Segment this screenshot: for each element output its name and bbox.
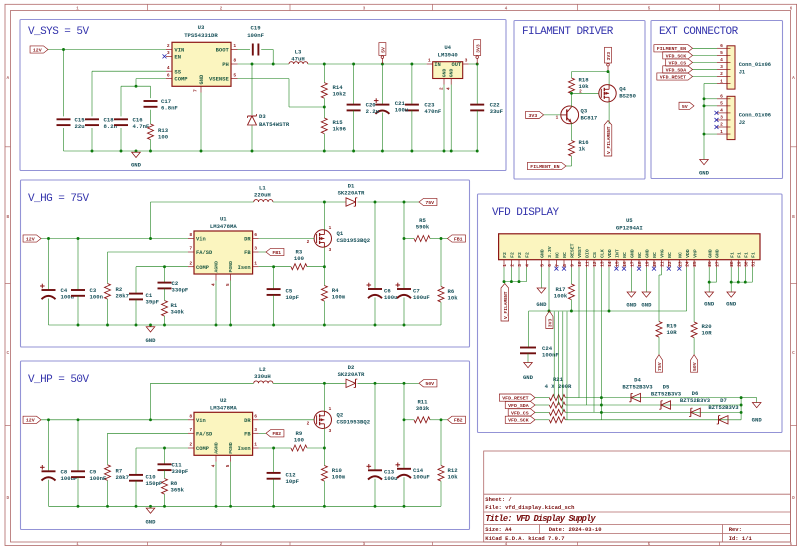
svg-text:12V: 12V — [33, 47, 42, 53]
svg-text:3: 3 — [329, 248, 332, 253]
svg-text:GND: GND — [449, 68, 455, 77]
svg-text:39pF: 39pF — [146, 299, 160, 306]
svg-text:7: 7 — [554, 264, 560, 267]
svg-text:8: 8 — [189, 232, 192, 238]
svg-text:COMP: COMP — [174, 76, 188, 83]
svg-text:LM3478MA: LM3478MA — [210, 223, 237, 230]
svg-text:47uH: 47uH — [291, 55, 304, 62]
svg-text:BC817: BC817 — [581, 115, 598, 122]
svg-text:File: vfd_display.kicad_sch: File: vfd_display.kicad_sch — [485, 504, 574, 511]
svg-text:10pF: 10pF — [286, 478, 300, 485]
svg-text:GND: GND — [626, 302, 637, 309]
svg-text:V_HP = 50V: V_HP = 50V — [28, 374, 89, 386]
svg-text:9: 9 — [569, 264, 575, 267]
svg-text:4: 4 — [211, 464, 216, 467]
svg-text:8: 8 — [562, 264, 568, 267]
svg-text:2: 2 — [307, 421, 310, 426]
svg-text:3: 3 — [254, 246, 257, 252]
svg-text:KiCad E.D.A. kicad 7.0.7: KiCad E.D.A. kicad 7.0.7 — [485, 535, 564, 542]
svg-text:2: 2 — [509, 264, 515, 267]
svg-text:Size: A4: Size: A4 — [485, 526, 512, 533]
svg-text:6: 6 — [167, 72, 170, 78]
svg-text:DR: DR — [244, 418, 251, 424]
svg-text:Date: 2024-03-10: Date: 2024-03-10 — [549, 526, 602, 533]
svg-text:5: 5 — [720, 101, 723, 107]
svg-text:VFD_SDA: VFD_SDA — [666, 67, 687, 73]
svg-text:5V: 5V — [381, 47, 387, 53]
svg-text:Vin: Vin — [196, 237, 206, 243]
svg-text:F1: F1 — [729, 252, 735, 258]
svg-text:25: 25 — [692, 261, 698, 267]
svg-text:100: 100 — [158, 133, 169, 140]
svg-text:VDD: VDD — [607, 249, 613, 258]
svg-text:VRST: VRST — [577, 246, 583, 258]
svg-text:6: 6 — [720, 94, 723, 100]
svg-text:Sheet: /: Sheet: / — [485, 496, 512, 503]
svg-text:1: 1 — [233, 43, 236, 49]
svg-text:COMP: COMP — [196, 265, 209, 271]
svg-text:VFD_RESET: VFD_RESET — [502, 396, 528, 402]
svg-text:GND: GND — [752, 417, 763, 424]
svg-text:330uH: 330uH — [254, 373, 271, 380]
svg-text:NC: NC — [622, 252, 628, 258]
svg-text:DIO: DIO — [585, 249, 591, 258]
svg-text:20: 20 — [652, 261, 658, 267]
svg-text:V_SYS = 5V: V_SYS = 5V — [28, 26, 89, 38]
svg-text:30: 30 — [743, 261, 749, 267]
svg-text:GND: GND — [715, 249, 721, 258]
svg-text:12: 12 — [592, 261, 598, 267]
svg-text:1: 1 — [720, 78, 723, 84]
svg-text:100uF: 100uF — [61, 475, 78, 482]
svg-text:VFD DISPLAY: VFD DISPLAY — [492, 207, 560, 219]
svg-text:5: 5 — [720, 50, 723, 56]
svg-text:150pF: 150pF — [146, 480, 163, 487]
svg-text:4: 4 — [211, 283, 216, 286]
svg-text:Conn_01x06: Conn_01x06 — [739, 112, 771, 118]
svg-text:FB1: FB1 — [272, 250, 281, 256]
svg-text:VHG: VHG — [660, 249, 666, 258]
svg-text:7: 7 — [189, 246, 192, 252]
svg-text:PH: PH — [222, 61, 229, 68]
svg-text:100m: 100m — [332, 474, 346, 481]
svg-text:D3: D3 — [259, 113, 266, 120]
svg-text:A: A — [6, 76, 9, 81]
svg-text:VFD_SDA: VFD_SDA — [508, 403, 529, 409]
svg-text:DR: DR — [244, 237, 251, 243]
svg-text:GND: GND — [699, 170, 710, 177]
svg-text:10k: 10k — [448, 295, 459, 302]
svg-text:10R: 10R — [702, 330, 713, 337]
svg-text:FB: FB — [244, 431, 251, 437]
svg-text:12V: 12V — [26, 236, 35, 242]
svg-text:GND: GND — [707, 249, 713, 258]
svg-text:75V: 75V — [425, 200, 434, 206]
svg-text:B: B — [6, 215, 9, 220]
svg-text:D: D — [6, 496, 9, 501]
svg-text:10k2: 10k2 — [333, 91, 347, 98]
svg-text:100uF: 100uF — [413, 474, 430, 481]
svg-text:1k96: 1k96 — [333, 126, 347, 133]
svg-text:2: 2 — [720, 71, 723, 77]
svg-text:4: 4 — [720, 108, 723, 114]
svg-text:VFD_SCK: VFD_SCK — [666, 53, 687, 59]
svg-text:Q4: Q4 — [619, 86, 626, 93]
svg-text:100: 100 — [294, 255, 305, 262]
svg-text:2: 2 — [579, 89, 582, 94]
svg-text:D7: D7 — [720, 397, 727, 404]
svg-text:1: 1 — [720, 129, 723, 135]
svg-text:NC: NC — [667, 252, 673, 258]
svg-text:F1: F1 — [751, 252, 757, 258]
svg-text:1k: 1k — [579, 146, 586, 153]
svg-text:8.2n: 8.2n — [104, 123, 118, 130]
svg-text:2: 2 — [189, 260, 192, 266]
svg-text:3V3: 3V3 — [528, 113, 537, 119]
svg-text:29: 29 — [736, 261, 742, 267]
svg-text:33uF: 33uF — [490, 108, 504, 115]
svg-text:FB2: FB2 — [454, 418, 463, 424]
svg-text:FB2: FB2 — [272, 431, 281, 437]
svg-text:2: 2 — [439, 87, 444, 90]
svg-text:470nF: 470nF — [424, 108, 441, 115]
svg-text:L1: L1 — [259, 185, 266, 192]
svg-text:C: C — [792, 351, 795, 356]
svg-text:U4: U4 — [444, 44, 451, 51]
svg-text:F2: F2 — [502, 252, 508, 258]
svg-text:D1: D1 — [348, 183, 355, 190]
svg-text:GND: GND — [523, 374, 534, 381]
svg-text:15: 15 — [614, 261, 620, 267]
svg-text:C: C — [6, 351, 9, 356]
svg-text:CLK: CLK — [600, 249, 606, 258]
svg-text:EN: EN — [174, 54, 181, 61]
svg-text:100u: 100u — [384, 294, 397, 301]
svg-text:NC: NC — [678, 252, 684, 258]
svg-text:VDD: VDD — [685, 249, 691, 258]
svg-text:3: 3 — [720, 115, 723, 121]
svg-text:J2: J2 — [739, 120, 745, 126]
svg-text:CS: CS — [592, 252, 598, 258]
svg-text:Isen: Isen — [238, 446, 251, 452]
svg-text:U1: U1 — [220, 216, 227, 223]
svg-text:Q2: Q2 — [337, 411, 344, 418]
svg-text:FB1: FB1 — [454, 236, 463, 242]
svg-text:10R: 10R — [667, 329, 678, 336]
svg-text:Title: VFD Display Supply: Title: VFD Display Supply — [485, 514, 596, 524]
svg-text:16: 16 — [622, 261, 628, 267]
svg-text:5: 5 — [539, 264, 545, 267]
svg-text:GND: GND — [641, 302, 652, 309]
svg-text:J1: J1 — [739, 69, 745, 75]
svg-text:340k: 340k — [171, 309, 185, 316]
svg-text:D: D — [792, 496, 795, 501]
svg-text:VSENSE: VSENSE — [209, 76, 230, 83]
svg-text:100m: 100m — [332, 294, 346, 301]
svg-text:26: 26 — [707, 261, 713, 267]
svg-text:Isen: Isen — [238, 265, 251, 271]
svg-text:2: 2 — [307, 240, 310, 245]
svg-text:100n: 100n — [90, 294, 104, 301]
svg-text:1: 1 — [254, 260, 257, 266]
svg-text:7: 7 — [189, 427, 192, 433]
svg-text:100k: 100k — [554, 293, 568, 300]
svg-text:NC: NC — [637, 252, 643, 258]
svg-text:RESET: RESET — [570, 243, 576, 258]
svg-text:VFD_SCK: VFD_SCK — [508, 418, 529, 424]
svg-text:V_HG = 75V: V_HG = 75V — [28, 193, 89, 205]
svg-text:50V: 50V — [425, 381, 434, 387]
svg-text:A: A — [792, 76, 795, 81]
svg-text:6: 6 — [254, 232, 257, 238]
svg-text:3V3: 3V3 — [548, 319, 554, 328]
svg-text:12V: 12V — [26, 418, 35, 424]
svg-text:CSD1953BQ2: CSD1953BQ2 — [337, 237, 371, 244]
svg-text:22u: 22u — [75, 123, 85, 130]
svg-text:50V: 50V — [692, 362, 698, 371]
svg-text:27: 27 — [715, 261, 721, 267]
svg-text:2: 2 — [720, 122, 723, 128]
svg-text:23: 23 — [677, 261, 683, 267]
svg-text:NC: NC — [652, 252, 658, 258]
svg-text:FA/SD: FA/SD — [196, 250, 213, 256]
svg-text:VFD_CS: VFD_CS — [511, 410, 529, 416]
svg-text:24: 24 — [685, 261, 691, 267]
svg-text:U5: U5 — [626, 217, 633, 224]
svg-text:GND: GND — [540, 249, 546, 258]
svg-text:10: 10 — [577, 261, 583, 267]
svg-text:330pF: 330pF — [172, 287, 189, 294]
svg-text:CSD1953BQ2: CSD1953BQ2 — [337, 418, 371, 425]
svg-text:1: 1 — [556, 116, 559, 121]
svg-text:D6: D6 — [692, 390, 699, 397]
svg-text:LM3940: LM3940 — [438, 52, 459, 59]
svg-text:6: 6 — [254, 414, 257, 420]
svg-text:19: 19 — [644, 261, 650, 267]
svg-text:COMP: COMP — [196, 446, 209, 452]
svg-text:4: 4 — [525, 264, 531, 267]
svg-text:4: 4 — [720, 57, 723, 63]
svg-text:L2: L2 — [259, 366, 266, 373]
svg-text:5: 5 — [233, 72, 236, 78]
svg-text:GP1294AI: GP1294AI — [616, 224, 643, 231]
svg-text:1: 1 — [254, 442, 257, 448]
svg-text:FILMENT_EN: FILMENT_EN — [657, 46, 686, 52]
svg-text:11: 11 — [585, 261, 591, 267]
svg-text:365k: 365k — [171, 487, 185, 494]
svg-text:2.2u: 2.2u — [366, 108, 379, 115]
svg-text:GND: GND — [536, 301, 547, 308]
svg-text:8: 8 — [233, 58, 236, 64]
svg-text:2: 2 — [189, 442, 192, 448]
svg-text:BZT52B3V3: BZT52B3V3 — [680, 397, 711, 404]
svg-text:6: 6 — [547, 264, 553, 267]
svg-text:5V: 5V — [682, 104, 688, 110]
svg-text:1: 1 — [329, 407, 332, 412]
svg-text:100u: 100u — [395, 107, 408, 114]
svg-text:1: 1 — [428, 58, 431, 64]
svg-text:75V: 75V — [657, 362, 663, 371]
svg-text:31: 31 — [750, 261, 756, 267]
svg-text:GND: GND — [704, 301, 715, 308]
svg-text:F1: F1 — [744, 252, 750, 258]
svg-text:BAT54WSTR: BAT54WSTR — [259, 121, 290, 128]
svg-text:6.8nF: 6.8nF — [161, 104, 178, 111]
svg-text:Rev:: Rev: — [729, 526, 742, 533]
svg-text:Vin: Vin — [196, 418, 206, 424]
svg-text:14: 14 — [607, 261, 613, 267]
svg-text:D5: D5 — [663, 384, 670, 391]
svg-text:VHP: VHP — [692, 249, 698, 258]
svg-text:LM3478MA: LM3478MA — [210, 404, 237, 411]
svg-text:U2: U2 — [220, 397, 227, 404]
svg-text:F2: F2 — [525, 252, 531, 258]
svg-text:590k: 590k — [416, 224, 430, 231]
svg-text:3: 3 — [167, 50, 170, 56]
svg-text:VFD_RESET: VFD_RESET — [660, 74, 686, 80]
svg-text:SS: SS — [174, 68, 181, 75]
svg-text:4: 4 — [447, 87, 452, 90]
svg-text:SK220ATR: SK220ATR — [338, 371, 365, 378]
svg-text:AGND: AGND — [214, 261, 220, 273]
svg-text:28: 28 — [729, 261, 735, 267]
svg-text:Conn_01x06: Conn_01x06 — [739, 62, 771, 68]
svg-text:5: 5 — [226, 464, 231, 467]
svg-text:330pF: 330pF — [172, 468, 189, 475]
svg-text:V_FILAMENT: V_FILAMENT — [503, 291, 509, 319]
svg-text:GND: GND — [726, 301, 737, 308]
svg-text:GND: GND — [145, 337, 156, 344]
svg-text:U3: U3 — [198, 24, 205, 31]
svg-text:GND: GND — [199, 74, 205, 84]
svg-text:1: 1 — [502, 264, 508, 267]
svg-text:INT: INT — [615, 249, 621, 258]
svg-text:BS250: BS250 — [619, 93, 636, 100]
svg-text:4.7nF: 4.7nF — [133, 123, 150, 130]
svg-text:10k: 10k — [448, 474, 459, 481]
svg-text:BZT52B3V3: BZT52B3V3 — [622, 383, 653, 390]
svg-text:IN: IN — [434, 62, 440, 68]
svg-text:8: 8 — [189, 414, 192, 420]
svg-text:28k7: 28k7 — [116, 293, 129, 300]
svg-text:1: 1 — [329, 226, 332, 231]
svg-text:D2: D2 — [348, 364, 355, 371]
svg-text:100uF: 100uF — [413, 294, 430, 301]
svg-text:PGND: PGND — [228, 261, 234, 273]
svg-text:V_FILAMENT: V_FILAMENT — [606, 126, 612, 154]
svg-text:17: 17 — [629, 261, 635, 267]
svg-text:BZT52B3V3: BZT52B3V3 — [708, 404, 739, 411]
svg-text:GND: GND — [630, 249, 636, 258]
svg-text:3: 3 — [329, 429, 332, 434]
svg-text:4: 4 — [167, 65, 170, 71]
svg-text:100: 100 — [294, 436, 305, 443]
svg-text:3V3: 3V3 — [475, 44, 481, 53]
svg-text:3: 3 — [254, 427, 257, 433]
svg-text:Q1: Q1 — [337, 230, 344, 237]
svg-text:220uH: 220uH — [254, 192, 271, 199]
svg-text:GND: GND — [645, 249, 651, 258]
svg-text:NC: NC — [555, 252, 561, 258]
svg-text:3: 3 — [465, 58, 468, 64]
svg-text:B: B — [792, 215, 795, 220]
svg-text:OUT: OUT — [451, 62, 461, 68]
svg-text:100u: 100u — [61, 294, 74, 301]
svg-text:Id: 1/1: Id: 1/1 — [729, 535, 753, 542]
svg-text:28k7: 28k7 — [116, 474, 129, 481]
svg-text:AGND: AGND — [214, 442, 220, 454]
svg-text:FB: FB — [244, 250, 251, 256]
svg-text:7: 7 — [193, 89, 199, 92]
svg-text:13: 13 — [599, 261, 605, 267]
svg-text:VFD_CS: VFD_CS — [669, 60, 687, 66]
svg-text:383k: 383k — [416, 405, 430, 412]
svg-text:FILAMENT DRIVER: FILAMENT DRIVER — [522, 26, 614, 38]
svg-text:SK220ATR: SK220ATR — [338, 190, 365, 197]
svg-text:100u: 100u — [384, 475, 397, 482]
svg-text:100nF: 100nF — [90, 475, 107, 482]
svg-text:EXT CONNECTOR: EXT CONNECTOR — [659, 26, 739, 38]
svg-text:GND: GND — [442, 68, 448, 77]
svg-text:C19: C19 — [251, 25, 262, 32]
svg-text:21: 21 — [659, 261, 665, 267]
svg-text:F1: F1 — [737, 252, 743, 258]
svg-text:6: 6 — [720, 43, 723, 49]
svg-text:100nF: 100nF — [542, 352, 559, 359]
svg-text:22: 22 — [667, 261, 673, 267]
svg-text:10pF: 10pF — [286, 294, 300, 301]
svg-text:FILMENT_EN: FILMENT_EN — [530, 164, 559, 170]
svg-text:3V3: 3V3 — [606, 52, 612, 61]
svg-text:FA/SD: FA/SD — [196, 431, 213, 437]
svg-text:NC: NC — [562, 252, 568, 258]
svg-text:TPS54331DR: TPS54331DR — [184, 32, 218, 39]
svg-text:F2: F2 — [510, 252, 516, 258]
svg-text:Q3: Q3 — [581, 108, 588, 115]
svg-text:PGND: PGND — [228, 442, 234, 454]
svg-text:BZT52B3V3: BZT52B3V3 — [651, 391, 682, 398]
svg-text:18: 18 — [637, 261, 643, 267]
svg-text:100nF: 100nF — [247, 32, 264, 39]
svg-text:F2: F2 — [517, 252, 523, 258]
svg-text:2: 2 — [167, 43, 170, 49]
svg-text:5: 5 — [226, 283, 231, 286]
svg-text:GND: GND — [131, 162, 142, 169]
svg-text:3: 3 — [517, 264, 523, 267]
svg-text:3.3V: 3.3V — [547, 246, 553, 258]
svg-text:BOOT: BOOT — [216, 47, 230, 54]
svg-text:GND: GND — [145, 518, 156, 525]
svg-text:3: 3 — [720, 64, 723, 70]
